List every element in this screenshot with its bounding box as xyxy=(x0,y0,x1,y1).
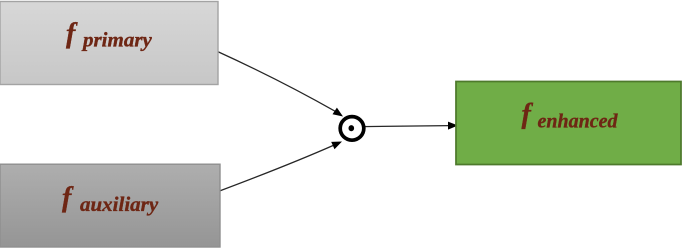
wire: arrow from f_auxiliary block to product node xyxy=(220,142,343,192)
svg-text:enhanced: enhanced xyxy=(538,111,619,133)
svg-text:primary: primary xyxy=(81,28,153,52)
block f_primary xyxy=(0,2,218,85)
node: element-wise product operator (circled dot) xyxy=(340,117,364,141)
block f_auxiliary xyxy=(0,164,220,247)
svg-text:auxiliary: auxiliary xyxy=(80,192,159,216)
wire: arrow from product node to f_enhanced block xyxy=(362,122,458,130)
block f_enhanced xyxy=(456,82,681,165)
wire: arrow from f_primary block to product node xyxy=(218,52,344,117)
